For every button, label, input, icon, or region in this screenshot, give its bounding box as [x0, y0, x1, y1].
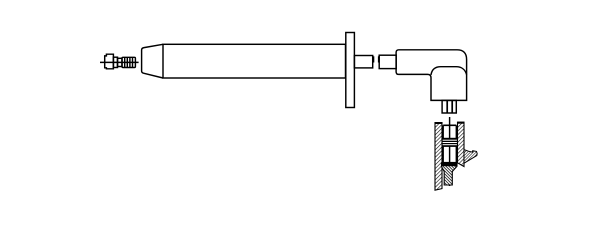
funnel top band — [442, 163, 457, 166]
elbow boot outline — [396, 50, 467, 101]
inner tube left line — [442, 125, 444, 162]
flange plate — [346, 33, 355, 108]
inner tube right line — [455, 125, 457, 162]
left wall top cap — [435, 122, 443, 124]
crimp sleeve — [379, 55, 396, 68]
inner tube top edge — [443, 124, 456, 126]
sleeve end nib — [372, 56, 374, 62]
contact funnel (section) — [442, 163, 458, 185]
terminal neck — [118, 58, 123, 66]
connector right wall (section) — [458, 122, 465, 166]
elbow shoulder curve — [431, 67, 467, 75]
right wall top cap — [457, 122, 464, 124]
tube bottom edge — [443, 162, 458, 164]
ring slit 2 — [443, 142, 457, 144]
ring groove block — [442, 138, 458, 147]
ring slit 1 — [443, 139, 457, 141]
crimp start nib — [378, 56, 380, 62]
rib lines — [124, 57, 126, 67]
terminal cap — [105, 54, 114, 69]
cable cone — [142, 44, 163, 78]
terminal collar — [113, 57, 117, 67]
boot lower terminal — [442, 100, 456, 113]
cable body — [163, 44, 346, 78]
axis line left terminal — [100, 61, 139, 63]
ring slit 3 — [443, 144, 457, 146]
sleeve after flange — [354, 56, 372, 68]
terminal ribbed shank — [122, 57, 135, 67]
terminal prong line 2 — [451, 100, 453, 113]
terminal prong line 1 — [446, 100, 448, 113]
side horn (section) — [464, 150, 477, 164]
connector left wall (section) — [435, 123, 442, 191]
connector axis line — [449, 117, 451, 186]
